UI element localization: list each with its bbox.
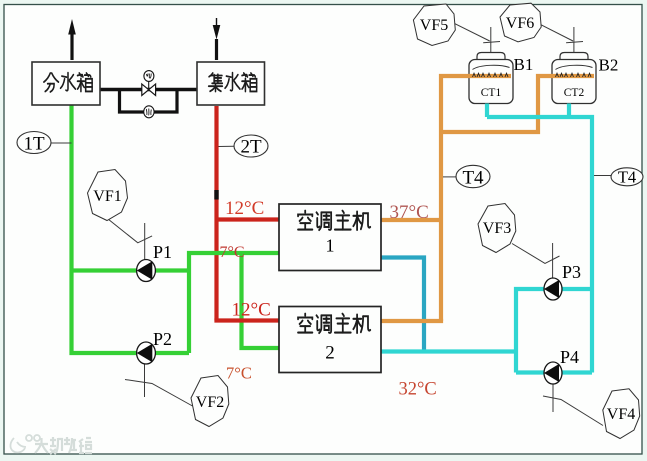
sensor 2T bbox=[219, 135, 269, 158]
watermark bbox=[10, 435, 92, 454]
pump P2 bbox=[125, 342, 193, 406]
wire green pump P1 branch bbox=[72, 268, 190, 272]
valve tag VF2 bbox=[191, 376, 229, 427]
black segment on red main bbox=[214, 190, 218, 200]
wire green chilled supply main bbox=[72, 105, 190, 353]
wire orange condenser main riser and CT1 feed bbox=[441, 76, 511, 321]
svg-text:1T: 1T bbox=[23, 134, 45, 155]
svg-text:CT2: CT2 bbox=[564, 87, 585, 99]
svg-text:B2: B2 bbox=[599, 56, 619, 75]
valve tag VF5 bbox=[413, 4, 455, 46]
CT1 fan shaft bbox=[453, 23, 500, 53]
pump P1 bbox=[108, 219, 155, 282]
wire black inlet riser into 集水箱 bbox=[213, 18, 221, 60]
wire cyan header and right main bbox=[487, 117, 592, 373]
wire cyan pump loop bottom bbox=[516, 370, 592, 374]
svg-text:VF3: VF3 bbox=[483, 220, 511, 237]
wire orange CT2 feed bbox=[441, 76, 594, 132]
valve V1 butterfly on header bbox=[142, 71, 156, 96]
spray nozzles CT2 bbox=[556, 73, 592, 77]
sensor T4 left bbox=[443, 165, 490, 188]
svg-text:P1: P1 bbox=[153, 242, 172, 262]
chiller 空调主机2 bbox=[279, 307, 381, 373]
svg-text:VF5: VF5 bbox=[420, 17, 448, 34]
svg-text:7°C: 7°C bbox=[220, 244, 245, 261]
svg-text:P3: P3 bbox=[562, 262, 581, 282]
instrument on bypass bbox=[144, 106, 154, 118]
wire cyan CT2 drop bbox=[567, 104, 571, 118]
wire red chilled return main bbox=[214, 106, 218, 321]
wire cyan supply from chiller 2 bbox=[381, 349, 516, 353]
svg-text:VF2: VF2 bbox=[196, 394, 224, 411]
wire cyan CT1 drop bbox=[485, 104, 489, 118]
wire black outlet riser from 分水箱 bbox=[68, 19, 76, 60]
tank 集水箱 bbox=[197, 62, 265, 105]
wire black header between tanks bbox=[100, 88, 197, 91]
wire green drop to chiller 2 bbox=[242, 253, 280, 348]
svg-text:1: 1 bbox=[326, 236, 335, 256]
wire black bypass loop bbox=[120, 90, 178, 113]
svg-text:VF4: VF4 bbox=[607, 406, 635, 423]
chiller 空调主机1 bbox=[279, 204, 381, 271]
wire blue condenser line from chiller 1 bbox=[381, 258, 424, 352]
svg-text:32°C: 32°C bbox=[399, 380, 437, 400]
sensor T4 right bbox=[594, 168, 643, 187]
svg-text:CT1: CT1 bbox=[481, 87, 502, 99]
wire cyan pump loop left and top bbox=[516, 289, 592, 373]
pump P4 bbox=[543, 362, 603, 426]
sensor 1T bbox=[17, 132, 72, 155]
svg-text:12°C: 12°C bbox=[225, 198, 264, 219]
svg-text:VF6: VF6 bbox=[506, 15, 534, 32]
wire red branch to chiller 1 bbox=[217, 217, 280, 221]
valve tag VF6 bbox=[500, 3, 541, 42]
svg-text:B1: B1 bbox=[514, 55, 534, 74]
wire orange from chiller 2 bbox=[381, 319, 443, 323]
svg-text:12°C: 12°C bbox=[232, 300, 271, 321]
pump P3 bbox=[512, 243, 562, 300]
svg-text:2: 2 bbox=[325, 343, 335, 364]
wire orange 37C from chiller 1 bbox=[381, 218, 441, 222]
svg-text:7°C: 7°C bbox=[226, 364, 252, 383]
cooling tower B2 body bbox=[552, 53, 596, 104]
svg-text:P2: P2 bbox=[153, 329, 172, 349]
wire red branch to chiller 2 bbox=[214, 318, 279, 322]
valve tag VF1 bbox=[88, 170, 128, 221]
CT2 fan shaft bbox=[537, 23, 583, 53]
wire green riser to 7C header bbox=[189, 253, 279, 353]
valve tag VF4 bbox=[603, 389, 640, 439]
spray nozzles CT1 bbox=[473, 73, 509, 77]
tank 分水箱 bbox=[32, 62, 100, 105]
svg-text:P4: P4 bbox=[560, 347, 579, 367]
svg-text:2T: 2T bbox=[240, 137, 262, 158]
svg-text:T4: T4 bbox=[462, 168, 484, 189]
svg-text:VF1: VF1 bbox=[93, 188, 121, 205]
svg-text:T4: T4 bbox=[618, 168, 636, 187]
svg-text:37°C: 37°C bbox=[390, 202, 429, 223]
cooling tower B1 body bbox=[469, 53, 513, 104]
valve tag VF3 bbox=[478, 204, 516, 253]
